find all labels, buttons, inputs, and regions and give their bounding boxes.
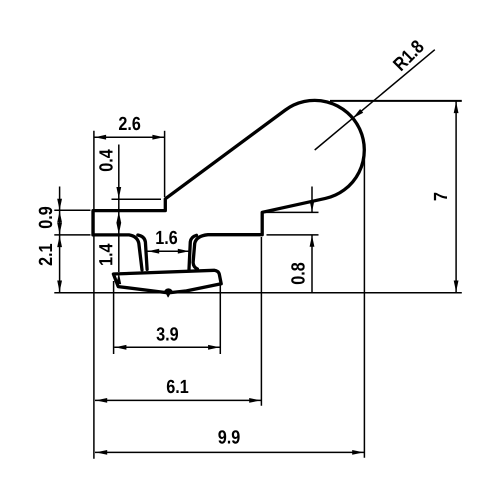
arrow R1.8 at bulb edge <box>353 109 363 118</box>
upper leader of 0.8 <box>311 187 313 213</box>
dimension line 1.6 <box>148 250 190 252</box>
arrow 2.6 right <box>152 135 164 140</box>
dimension line 2.6 <box>94 136 165 138</box>
arrow 0.8 down to upper line <box>310 201 315 213</box>
groove right wall <box>189 235 197 269</box>
extension line for 3.9 left <box>113 281 115 354</box>
dimension line for 0.9 and 2.1 <box>59 187 61 293</box>
arrow 0.9 from above <box>57 199 62 211</box>
label 9.9 <box>218 430 239 444</box>
label 0.4 <box>99 149 113 171</box>
arrow 7 top <box>454 102 459 114</box>
extension line of profile left edge <box>93 131 95 459</box>
arrow 2.1 up <box>57 236 62 248</box>
label 6.1 <box>167 380 188 394</box>
arrow 0.4 up below flap top <box>116 212 121 224</box>
profile upper outline: flap, step, tangent wall, bulb R1.8 arc, lower tangent, 0.8 step, shelf edge, right leg outer side <box>93 100 364 268</box>
arrow 2.1 down <box>57 281 62 293</box>
extension line for 9.9 right at bulb tangent <box>363 150 365 458</box>
foot (base) closed outline <box>113 270 221 293</box>
extension line of step corner for 2.6 <box>164 131 166 197</box>
arrow 3.9 left <box>115 345 127 350</box>
arrow 0.9 up inside <box>57 211 62 223</box>
arrow 1.4 bottom <box>116 273 121 285</box>
label 1.4 <box>99 244 112 265</box>
extension line y=212.5 for 0.8 <box>265 211 319 213</box>
arrow 0.8 up to lower line <box>310 235 315 247</box>
top extension line for 7 <box>330 100 462 102</box>
dimension line 9.9 <box>95 451 364 453</box>
dimension line for 0.4 and 1.4 <box>118 145 120 273</box>
flap underside and left leg outer side <box>93 235 142 270</box>
arrow 9.9 right <box>352 450 364 455</box>
arrow 0.9 down inside <box>57 223 62 235</box>
arrow 3.9 right <box>208 345 220 350</box>
arrow 6.1 right <box>249 398 261 403</box>
arrow 6.1 left <box>96 398 108 403</box>
label 3.9 <box>157 327 179 341</box>
center rib bump on foot underside <box>164 289 172 294</box>
label 0.9 <box>39 207 53 228</box>
label 1.6 <box>156 231 177 245</box>
arrow 1.4 top <box>116 223 121 235</box>
dimension line 7 <box>455 101 457 293</box>
arrow 2.6 left <box>95 135 107 140</box>
baseline datum <box>54 292 462 294</box>
left extension of flap bottom edge <box>54 234 90 236</box>
arrow 1.6 right <box>178 249 190 254</box>
arrow 1.6 left <box>148 249 160 254</box>
dimension line 3.9 <box>114 346 220 348</box>
arrow 7 bottom <box>454 281 459 293</box>
extension line for 3.9 right <box>219 277 221 354</box>
arrow 0.4 down <box>116 187 121 199</box>
label R1.8 <box>392 39 425 72</box>
label 0.8 <box>291 263 305 284</box>
extension line for 6.1 right at 0.8 step <box>260 237 262 406</box>
center drip point below foot <box>167 294 170 297</box>
lower leader of 0.8 <box>311 235 313 293</box>
label 2.6 <box>119 117 140 131</box>
arrow 9.9 left <box>96 450 108 455</box>
groove left wall <box>138 235 147 269</box>
extension line y=235 for 0.8 <box>267 234 319 236</box>
left extension of flap top edge <box>54 209 90 211</box>
label 7 <box>434 193 447 201</box>
radius leader R1.8 <box>315 50 435 150</box>
label 2.1 <box>39 244 52 265</box>
extension line of 0.4 step level <box>112 198 162 200</box>
dimension line 6.1 <box>95 399 261 401</box>
